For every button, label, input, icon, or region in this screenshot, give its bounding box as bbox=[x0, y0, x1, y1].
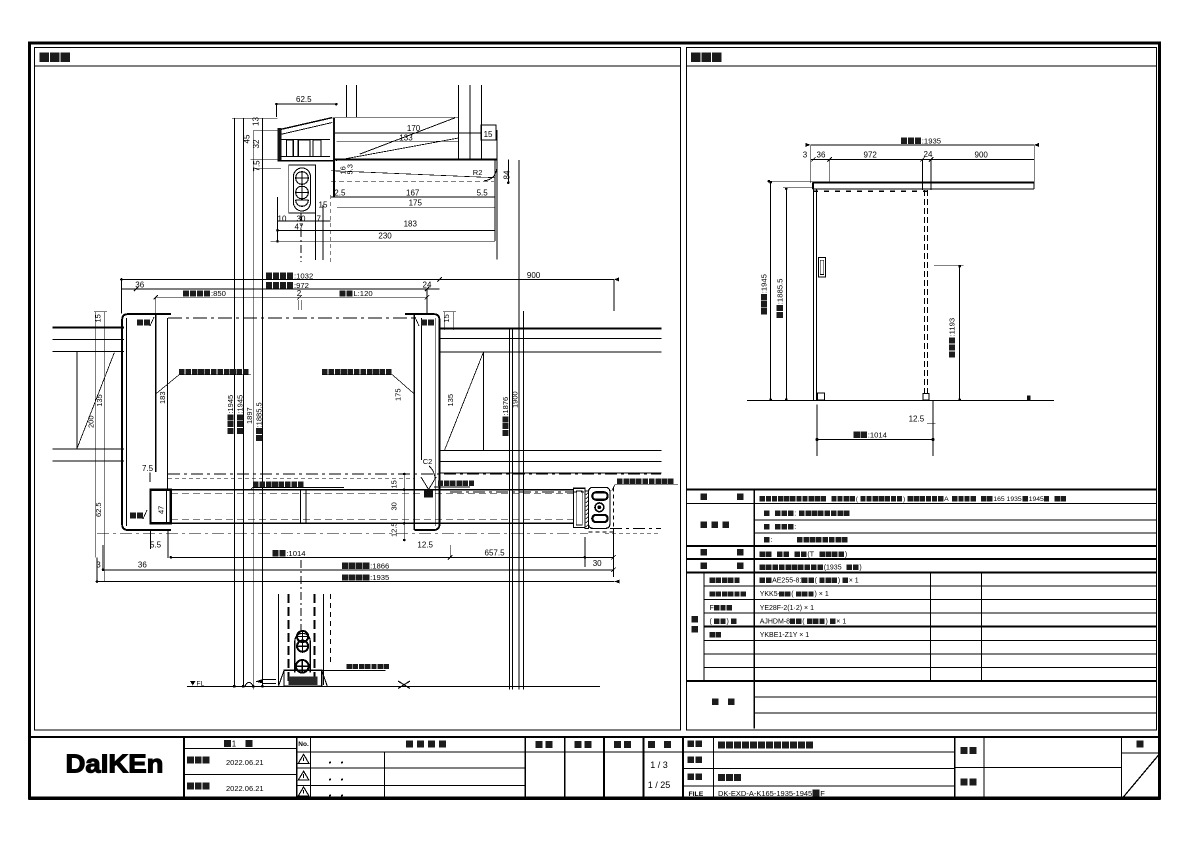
rev table dai-1-han header bbox=[224, 740, 231, 747]
upper wall vertical lines bbox=[346, 85, 348, 118]
left panel (section view) border bbox=[35, 48, 681, 731]
upper right wall vertical lines bbox=[458, 85, 460, 160]
svg-text::1014: :1014 bbox=[286, 549, 306, 558]
front dim line 1935 bbox=[811, 144, 1035, 146]
spec hinban label vertical bbox=[692, 616, 699, 623]
product name title bbox=[718, 742, 725, 749]
rotated dim 62.5 left bbox=[94, 502, 103, 517]
svg-text:32: 32 bbox=[252, 139, 261, 148]
svg-text:5.5: 5.5 bbox=[477, 188, 489, 197]
stopper dashed box bbox=[612, 487, 614, 532]
rotated dim 135 left bbox=[95, 394, 104, 407]
left wall section bbox=[52, 326, 124, 328]
warning triangles bbox=[298, 754, 309, 763]
left wall cluster vertical lines bbox=[233, 118, 235, 686]
svg-text:1900: 1900 bbox=[511, 391, 520, 408]
mohair rail funnel bbox=[421, 477, 429, 490]
rev table kaitei date bbox=[187, 783, 194, 790]
rev table seitei date bbox=[187, 757, 194, 764]
svg-text:24: 24 bbox=[924, 150, 933, 159]
rail right vertical bbox=[496, 130, 498, 260]
svg-text:5.5: 5.5 bbox=[150, 541, 162, 550]
label flat rail bbox=[347, 664, 352, 669]
svg-text:36: 36 bbox=[817, 151, 826, 160]
rail band inner slope bbox=[331, 171, 495, 178]
end stopper body bbox=[589, 487, 610, 528]
rotated dim 183 left frame bbox=[158, 391, 167, 404]
svg-text:47: 47 bbox=[157, 506, 166, 514]
svg-text:45: 45 bbox=[243, 134, 252, 143]
svg-text:135: 135 bbox=[95, 394, 104, 407]
svg-text::: : bbox=[794, 511, 796, 518]
right wall cluster verticals bbox=[509, 328, 511, 689]
page column bbox=[1137, 741, 1144, 748]
door end hatch strip bbox=[585, 491, 589, 528]
svg-text:30: 30 bbox=[593, 559, 602, 568]
svg-text:C2: C2 bbox=[423, 457, 433, 466]
front dim vertical 1945 bbox=[770, 181, 772, 400]
page diagonal bbox=[1123, 755, 1159, 798]
svg-text:× 1: × 1 bbox=[836, 618, 846, 625]
svg-text::1945: :1945 bbox=[226, 395, 235, 414]
rotated dim waku-uchi-daka 1945 bbox=[236, 395, 245, 434]
front dim vertical 1885.5 bbox=[785, 188, 787, 401]
rail band bottom dashed bbox=[331, 180, 494, 182]
track centerline dash-dot bbox=[97, 532, 588, 534]
FL floor line bbox=[187, 685, 600, 687]
door panel joint bbox=[300, 490, 302, 524]
svg-text:12.5: 12.5 bbox=[909, 415, 925, 424]
svg-text:AE255-81: AE255-81 bbox=[772, 578, 803, 585]
floor level marks bbox=[246, 683, 253, 686]
spec row yoshiki label bbox=[701, 494, 708, 501]
svg-text:167: 167 bbox=[406, 188, 420, 197]
right jamb frame outline bbox=[405, 314, 440, 530]
rail band top thick line bbox=[334, 158, 497, 160]
rotated dim 47 door cap bbox=[157, 506, 166, 514]
svg-text:1 / 25: 1 / 25 bbox=[648, 780, 671, 790]
svg-text:): ) bbox=[727, 618, 729, 625]
top rail thin upper lines bbox=[335, 132, 481, 134]
screw cap label left bbox=[179, 369, 185, 375]
svg-text::1945: :1945 bbox=[236, 395, 245, 414]
kakunin header bbox=[575, 741, 582, 748]
hinban label bbox=[688, 757, 695, 764]
svg-text:YKBE1-Z1Y × 1: YKBE1-Z1Y × 1 bbox=[760, 632, 810, 639]
rail band left edge bbox=[333, 159, 335, 197]
svg-text:YE28F-2(1·2) × 1: YE28F-2(1·2) × 1 bbox=[760, 605, 814, 612]
dim line yuko-kaiko 850 / 120 bbox=[156, 296, 427, 298]
front right floor guide block bbox=[923, 394, 929, 401]
spec rows shiage bbox=[701, 522, 708, 529]
svg-text:175: 175 bbox=[409, 199, 423, 208]
svg-text:): ) bbox=[825, 618, 827, 625]
svg-text:84: 84 bbox=[503, 170, 512, 179]
left dim extension ticks top detail bbox=[232, 117, 277, 119]
stopper capsules bbox=[592, 492, 607, 500]
svg-text:24: 24 bbox=[423, 281, 432, 290]
rotated dim tobira-daka 1885.5 bbox=[255, 402, 264, 441]
svg-text::: : bbox=[770, 537, 772, 544]
right panel header underline bbox=[686, 65, 1156, 67]
spec biko label bbox=[712, 699, 719, 706]
svg-text:2022.06.21: 2022.06.21 bbox=[226, 784, 264, 793]
bottom hanger capsule bbox=[295, 633, 310, 672]
stopper label endstopper bbox=[617, 478, 623, 484]
svg-text:7: 7 bbox=[317, 214, 322, 223]
rotated dim 5.3 band bbox=[346, 164, 355, 174]
front floor right end marker bbox=[1027, 395, 1031, 400]
svg-text:1945: 1945 bbox=[1029, 496, 1044, 503]
sakusei header bbox=[614, 741, 621, 748]
right jamb inner lines bbox=[413, 314, 415, 530]
front dim line segments 3 36 972 24 900 bbox=[811, 158, 1035, 160]
kenmei label bbox=[961, 747, 968, 754]
svg-text:No.: No. bbox=[298, 741, 309, 748]
front top rail bar bbox=[813, 181, 1035, 183]
spec row yoshiki content bbox=[760, 496, 765, 501]
svg-text::1876: :1876 bbox=[501, 397, 510, 416]
bracket right post bbox=[333, 117, 335, 161]
left panel header underline bbox=[35, 65, 681, 67]
bottom rail verticals bbox=[278, 594, 280, 685]
svg-text:36: 36 bbox=[135, 281, 144, 290]
drawing name sanmenzu bbox=[718, 774, 725, 781]
left wall diagonal bbox=[77, 352, 114, 448]
rotated dims 15 30 12.5 right of door bbox=[390, 480, 399, 488]
rotated dim 16 band bbox=[339, 166, 348, 174]
front top extension ticks bbox=[768, 180, 813, 182]
rotated dim 32 bbox=[252, 139, 261, 148]
svg-text:183: 183 bbox=[158, 391, 167, 404]
rotated dim 1897 bbox=[245, 407, 254, 424]
svg-text:): ) bbox=[845, 551, 847, 558]
svg-text:): ) bbox=[903, 496, 905, 503]
svg-text:183: 183 bbox=[404, 220, 418, 229]
kenmei divider bbox=[955, 767, 1122, 769]
cluster end dots bbox=[233, 685, 236, 688]
svg-text:230: 230 bbox=[378, 231, 392, 240]
svg-text::: : bbox=[794, 524, 796, 531]
svg-text:15: 15 bbox=[442, 314, 451, 322]
right wall section bbox=[440, 327, 662, 329]
meisho label bbox=[688, 741, 695, 748]
svg-text:170: 170 bbox=[407, 124, 421, 133]
svg-text::1193: :1193 bbox=[948, 318, 957, 337]
svg-text:(T: (T bbox=[807, 551, 814, 558]
svg-text:L:120: L:120 bbox=[353, 289, 372, 298]
svg-text:200: 200 bbox=[87, 415, 96, 428]
dim 24 rotated right of rail bbox=[503, 170, 512, 179]
rotated dim 209 left bbox=[87, 415, 96, 428]
svg-text:1897: 1897 bbox=[245, 407, 254, 424]
left jamb inner lines bbox=[155, 314, 157, 472]
svg-text:1: 1 bbox=[232, 739, 237, 748]
dim 62.5 bbox=[277, 103, 337, 105]
label R5 top-left bbox=[137, 320, 143, 326]
spec table column lines bbox=[753, 489, 755, 728]
svg-text:5.3: 5.3 bbox=[346, 164, 355, 174]
rail band rounded corner R2 bbox=[484, 166, 497, 181]
floor shoe rail bbox=[284, 670, 322, 686]
X break mark bbox=[398, 681, 410, 689]
front floor line bbox=[747, 400, 1054, 402]
svg-text::1935: :1935 bbox=[922, 136, 941, 145]
svg-text:7.5: 7.5 bbox=[142, 464, 154, 473]
spec row hand label bbox=[701, 549, 708, 556]
bracket rollers bbox=[287, 140, 294, 157]
svg-text:135: 135 bbox=[446, 394, 455, 407]
svg-text::1885.5: :1885.5 bbox=[775, 279, 784, 305]
svg-text:972: 972 bbox=[864, 151, 878, 160]
rev history sub divider bbox=[384, 752, 386, 799]
label shomenzu (front view) bbox=[691, 53, 701, 63]
svg-text:2.5: 2.5 bbox=[334, 189, 346, 198]
front door handle bbox=[818, 258, 825, 278]
front door right edge dashed bbox=[923, 190, 925, 394]
svg-text:900: 900 bbox=[975, 151, 989, 160]
svg-text::1866: :1866 bbox=[370, 561, 389, 570]
svg-text:62.5: 62.5 bbox=[296, 95, 312, 104]
label R5 top-right bbox=[421, 320, 427, 326]
front floor guide block bbox=[817, 393, 824, 400]
left jamb frame outline bbox=[122, 314, 171, 530]
svg-text::1014: :1014 bbox=[868, 430, 888, 439]
tanto label bbox=[961, 779, 968, 786]
door panel plan bottom edge bbox=[171, 522, 574, 524]
door left end cap bbox=[151, 490, 171, 524]
rotated dim 175 right frame bbox=[394, 388, 403, 401]
rotated dim 45 bbox=[243, 134, 252, 143]
front dim vertical 1193 handle height bbox=[934, 264, 963, 266]
door panel plan inner lines bbox=[171, 492, 574, 494]
svg-text::850: :850 bbox=[211, 289, 226, 298]
spec row kanagu label bbox=[701, 562, 708, 569]
svg-text:× 1: × 1 bbox=[849, 578, 859, 585]
dim 15 rotated top-right of frame bbox=[442, 314, 451, 322]
spec table border bbox=[687, 488, 1157, 490]
svg-text:YKK5-: YKK5- bbox=[760, 591, 781, 598]
svg-text:AJHDM-81: AJHDM-81 bbox=[760, 618, 794, 625]
front dim extension verticals bbox=[810, 145, 812, 183]
dim line uchi-haba2 972 bbox=[122, 288, 440, 290]
label danmenzu (section view) bbox=[40, 53, 50, 63]
svg-text:F: F bbox=[710, 605, 714, 612]
front door left edge bbox=[813, 183, 815, 401]
svg-text:62.5: 62.5 bbox=[94, 502, 103, 517]
rev rows dots bbox=[329, 762, 331, 764]
capsule area verticals bbox=[277, 197, 279, 241]
svg-text:13: 13 bbox=[252, 117, 261, 126]
rotated dim 13 bbox=[252, 117, 261, 126]
screw cap label right bbox=[322, 369, 328, 375]
kaitei rireki header bbox=[406, 741, 413, 748]
bottom rollers bbox=[297, 631, 308, 642]
svg-text:165 1935: 165 1935 bbox=[993, 496, 1022, 503]
svg-text::1945: :1945 bbox=[760, 274, 769, 293]
double tick below dim 2 bbox=[298, 300, 300, 310]
hanger bolt capsule bbox=[289, 165, 316, 213]
svg-text::1935: :1935 bbox=[370, 573, 389, 582]
svg-text::1885.5: :1885.5 bbox=[255, 402, 264, 427]
svg-text:657.5: 657.5 bbox=[485, 549, 506, 558]
top rail hanger bracket bbox=[277, 128, 281, 161]
svg-text:(1935: (1935 bbox=[824, 565, 842, 572]
rotated dim labels center: soto-daka 1945 bbox=[226, 395, 235, 434]
svg-text:DaIKEn: DaIKEn bbox=[66, 749, 164, 779]
rail diagonal brace lines bbox=[360, 118, 455, 154]
dim 15 rotated top-left of frame bbox=[94, 314, 103, 322]
svg-text:FILE: FILE bbox=[689, 791, 704, 798]
svg-text:900: 900 bbox=[527, 271, 541, 280]
right wall diagonal bbox=[445, 353, 484, 450]
bottom dim line uchi-haba1 1866 bbox=[103, 569, 613, 571]
door right end frame bbox=[573, 488, 585, 527]
rotated dim waku-uchi 1876 bbox=[501, 397, 510, 436]
svg-text:FL: FL bbox=[197, 680, 205, 687]
title col dividers bbox=[183, 737, 185, 799]
svg-text:): ) bbox=[838, 578, 840, 585]
dashed lines mid plan bbox=[168, 473, 661, 475]
bottom centerline dashed bbox=[300, 560, 302, 630]
svg-text:1 / 3: 1 / 3 bbox=[650, 760, 668, 770]
svg-text:15: 15 bbox=[390, 480, 399, 488]
svg-text:R2: R2 bbox=[473, 168, 483, 177]
rotated dim 135 right bbox=[446, 394, 455, 407]
svg-text:2022.06.21: 2022.06.21 bbox=[226, 758, 264, 767]
dim 15 boxed bbox=[481, 125, 496, 140]
svg-text:3: 3 bbox=[803, 151, 808, 160]
spec table row lines bbox=[687, 503, 1157, 505]
plan centerline dashed top bbox=[168, 317, 416, 319]
svg-text:A: A bbox=[944, 496, 949, 503]
door travel dash-dot bbox=[450, 491, 589, 493]
zumei label bbox=[688, 774, 695, 781]
rotated dim 1900 bbox=[511, 391, 520, 408]
door hanger label bbox=[253, 481, 259, 487]
svg-text::1032: :1032 bbox=[294, 271, 313, 280]
right panel (front view) border bbox=[686, 48, 1156, 731]
shukushaku header bbox=[648, 741, 655, 748]
label mohair rail bbox=[438, 481, 443, 486]
svg-text:2: 2 bbox=[297, 289, 302, 298]
title block border bbox=[30, 737, 1160, 799]
front dim 1014 bbox=[817, 439, 933, 441]
rail lower dash marks bbox=[813, 190, 927, 192]
dim line soto-haba2 1032 / 900 bbox=[122, 278, 614, 280]
svg-text:DK-EXD-A-K165-1935-1945-: DK-EXD-A-K165-1935-1945- bbox=[718, 789, 815, 798]
svg-text:36: 36 bbox=[138, 561, 147, 570]
label R5 bottom-left bbox=[130, 513, 136, 519]
door panel plan top edge bbox=[171, 489, 574, 491]
svg-text:15: 15 bbox=[484, 130, 493, 139]
svg-text:10: 10 bbox=[278, 214, 287, 223]
bottom dim line soto-haba1 1935 bbox=[97, 581, 615, 583]
shonin header bbox=[536, 741, 543, 748]
bottom dim line 1014 / 657.5 bbox=[171, 556, 614, 558]
svg-text:): ) bbox=[859, 565, 861, 572]
svg-text:12.5: 12.5 bbox=[417, 541, 433, 550]
svg-text:30: 30 bbox=[390, 502, 399, 510]
svg-text:7.5: 7.5 bbox=[253, 160, 262, 172]
svg-text:12.5: 12.5 bbox=[390, 522, 399, 537]
rotated dim 7.5 bbox=[253, 160, 262, 172]
rail top horizontal line bbox=[335, 116, 458, 118]
spec hinban rows bbox=[710, 578, 715, 583]
svg-text:175: 175 bbox=[394, 388, 403, 401]
svg-text:) × 1: ) × 1 bbox=[815, 591, 829, 598]
name rows right bbox=[683, 768, 955, 770]
FL symbol bbox=[190, 681, 196, 686]
svg-text:F: F bbox=[820, 789, 825, 798]
